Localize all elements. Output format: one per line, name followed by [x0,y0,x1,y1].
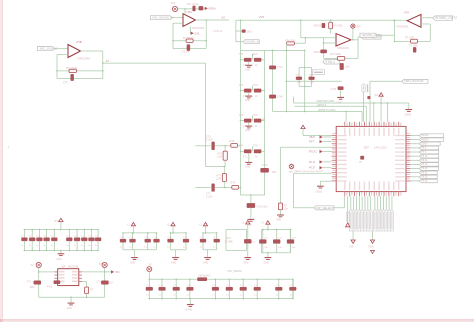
wire left vert [393,21,395,42]
wire feedback bottom [324,57,358,59]
svg-text:2: 2 [8,146,10,150]
capacitor C41 100n [269,66,275,69]
bank4 ground [205,232,207,234]
net 2V5 rail wire [236,19,409,21]
svg-text:R?2: R?2 [254,146,259,148]
capacitor Cb1_5 [54,229,56,231]
ground top right [405,109,412,111]
svg-text:MOSI0: MOSI0 [421,135,429,137]
svg-text:C?34 1u: C?34 1u [214,31,223,33]
ground chain [189,299,191,305]
thermal pad symbol [361,156,364,159]
svg-text:RST: RST [309,141,314,144]
svg-text:5V: 5V [149,263,152,266]
ground row 2 [248,93,250,97]
power flag down 2 [370,240,374,243]
svg-text:P0.27: P0.27 [309,167,316,170]
wire U7 out [82,271,111,273]
bottom bus U7 [39,296,105,298]
wire bottom col 4 [358,196,360,209]
svg-text:GND: GND [245,69,250,71]
svg-text:3V3: 3V3 [115,271,120,274]
wire bottom col 10 [377,196,379,209]
wire bottom col 6 [364,196,366,209]
bank3 bottom bus [171,249,187,251]
wire bottom col 14 [388,196,390,209]
capacitor C25 [54,281,60,284]
svg-text:FB? BLM21: FB? BLM21 [199,275,212,277]
RC row 1 wires [240,59,242,61]
svg-text:C?2: C?2 [309,75,314,77]
IC U7 MIC5205 body [58,269,79,286]
net label MIC_IN [150,16,172,20]
svg-text:U?A: U?A [404,11,410,15]
bank2 capacitor 2 [132,232,134,234]
svg-text:MIC_SOUND_IN: MIC_SOUND_IN [153,16,174,20]
net label P0.8 [419,146,439,150]
svg-text:P0.22: P0.22 [421,172,428,174]
svg-text:C? 100n: C? 100n [409,44,419,47]
svg-text:C?16 100n: C?16 100n [257,206,269,208]
ground row 4 [248,153,250,162]
svg-text:SOUND_OUT2: SOUND_OUT2 [435,16,457,20]
wire feedback left [172,23,174,48]
chain capacitor 3 [175,279,177,281]
IC right pins [406,135,411,137]
bank1 top bus [24,229,98,231]
vertical net label [362,84,365,92]
svg-text:1uF: 1uF [292,247,296,249]
wire to U5B +in [54,48,68,50]
test point circle [289,164,294,169]
chain capacitor 4 [189,279,191,281]
wire R mid [286,42,305,44]
svg-text:GND2: GND2 [316,190,323,193]
svg-text:UART0-RX-GPIO: UART0-RX-GPIO [316,100,334,103]
wire rows top bus [241,49,305,51]
RC row 2 wires [240,90,242,92]
wire R to gnd [280,210,282,215]
IC U1 LPC2103 body [336,126,406,191]
svg-text:GND: GND [337,102,342,104]
net label SCK0 [419,142,440,146]
chain capacitor 7 [242,279,244,281]
wire output and circle [351,39,358,41]
svg-text:VDD33: VDD33 [313,24,321,27]
net label to -in [360,33,378,37]
vertical net labels bottom [349,210,352,232]
svg-text:OPA2340: OPA2340 [192,26,205,30]
wire x387 to pin [386,103,388,122]
net label SOUND_IN [37,47,54,51]
bank4 capacitor 2 [216,232,218,234]
net label P0.9 [419,150,439,154]
resistor R32 100k [329,22,333,29]
bank2 capacitor 4 [156,232,158,234]
svg-text:C?3: C?3 [97,282,102,284]
wire to U7 in [39,271,55,273]
wire Hc y111.5 [273,111,363,113]
svg-text:OPA2340: OPA2340 [78,56,91,60]
wire branch2 left [195,187,210,189]
capacitor Cb1_8 [84,229,86,231]
svg-text:C?4: C?4 [239,85,244,87]
ground row 1 [248,62,250,66]
wire U7 bypass down [82,281,87,283]
svg-text:TP: TP [359,162,362,164]
svg-text:C?6: C?6 [63,82,68,85]
U7 right pin 1 [79,271,82,273]
svg-text:P0.9: P0.9 [421,152,426,154]
svg-text:C?4: C?4 [239,54,244,56]
svg-text:R?2: R?2 [254,54,259,56]
svg-text:2V5: 2V5 [195,31,200,35]
svg-text:RTCX1: RTCX1 [309,151,317,154]
svg-text:3V3: 3V3 [357,27,362,29]
svg-text:100n: 100n [247,32,253,34]
resistor R pulldown 10k [278,203,282,210]
svg-text:R?8: R?8 [230,140,235,143]
svg-text:P0.23: P0.23 [421,177,428,179]
via blob [368,96,371,99]
wire bottom col 2 [353,196,355,209]
ground bank5 [244,257,251,259]
svg-text:TP?: TP? [289,172,294,174]
svg-text:Q?2: Q?2 [227,238,232,240]
wire crystal feed [300,20,302,38]
vcc arrow above left pins [301,125,305,128]
wire feedback right vert [429,24,431,41]
chain capacitor 6 [229,279,231,281]
svg-text:R?1 C?34: R?1 C?34 [187,3,198,6]
wire right pin 3 [411,143,420,145]
wire C16 to gnd [250,208,252,219]
vcc arrow below [346,223,350,227]
wire Ha y103 long [293,102,408,104]
wire bottom col 9 [374,196,376,209]
svg-text:IC?: IC? [364,146,369,150]
svg-text:U5A: U5A [187,10,193,14]
chain capacitor 8 [256,279,258,281]
svg-text:VBAT_BACKUP: VBAT_BACKUP [404,79,424,83]
svg-text:P0.13: P0.13 [421,168,428,170]
svg-text:LPC2103: LPC2103 [374,146,387,150]
capacitor Cb1_3 [39,229,41,231]
wire RTCK net [281,146,332,148]
svg-text:P0.12: P0.12 [421,164,428,166]
wire to RC rows [238,145,241,147]
net label P0.13 [419,167,439,171]
wire U5B -in [57,54,68,56]
wire bottom col 3 [355,196,357,209]
IC left pins [332,135,337,137]
wire bottom col 1 [350,196,352,209]
wire right pin 6 [411,155,420,157]
wire x363 down [363,92,365,122]
wire mid node [206,165,225,167]
svg-text:GND: GND [245,167,250,169]
svg-text:100n: 100n [272,172,278,174]
net label ISP_SEL [314,206,334,210]
wire right rail [104,268,106,298]
wire bus y195 [241,194,265,196]
bank1 bottom bus [24,249,98,251]
svg-text:GND: GND [245,130,250,132]
wire bottom col 15 [391,196,393,209]
wire right pin 8 [411,163,420,165]
wire branch2 to rows [239,187,241,189]
svg-text:C?5 1uF: C?5 1uF [181,52,190,54]
bank4 bottom bus [203,249,217,251]
wire TXD bundle [293,172,331,174]
U7 right pin 4 [79,281,82,283]
wire right pin 7 [411,159,420,161]
ground C29 [337,96,344,98]
op-amp U5A [183,14,196,27]
capacitor Cb1_9 [91,229,93,231]
svg-text:SCK0: SCK0 [421,143,428,145]
wire H1 y81 [286,80,342,82]
RC row 3 wires [240,120,242,122]
wire RTCK down [280,147,282,203]
svg-text:R? 100k: R? 100k [334,24,344,27]
ground row 3 [248,123,250,127]
chain bottom bus [149,298,293,300]
ground bank1 [60,250,62,253]
capacitor C34 stub [236,30,242,32]
capacitor Cb1_1 [24,229,26,231]
U7 left pin 4 [55,281,58,283]
wire long down 1 [352,231,354,240]
resistor R bypass [85,287,89,294]
svg-text:MIC5205: MIC5205 [68,266,79,269]
wire crystal top [304,50,306,111]
chain capacitor 1 [149,279,151,281]
net label P0.22 [419,171,437,175]
capacitor C16 [250,195,252,203]
net arrow 2V5 at -in [191,32,194,35]
svg-text:220n: 220n [30,287,36,289]
bank2 ground [133,232,135,234]
svg-text:C?4: C?4 [239,146,244,148]
wire U5A vcc stub [184,9,186,14]
IC bottom pins [344,192,346,197]
bank6 top bus [261,229,290,231]
svg-text:P0.11: P0.11 [421,160,428,162]
svg-text:HS?_AUDIO: HS?_AUDIO [228,270,242,273]
bank6 left wire [260,230,262,253]
svg-text:ISP_SELECT: ISP_SELECT [316,206,334,210]
wire bottom col 7 [367,196,369,209]
wire rail left drop [235,20,237,42]
wire long vert x370 [369,81,371,121]
IC right pin names [395,135,405,136]
wire RC tap [304,38,306,44]
wire left rail [38,268,40,298]
wire Hb y106.3 [295,105,367,107]
wire gnd drop right [408,103,410,109]
wire right pin 10 [411,172,420,174]
crystal circuit box [299,66,311,68]
svg-text:GND: GND [203,263,208,265]
wire right pin 2 [411,139,420,141]
svg-text:P0.25: P0.25 [421,181,428,183]
svg-text:SOUND_IN: SOUND_IN [245,40,259,44]
svg-text:GND: GND [130,263,135,265]
capacitor Cb1_7 [76,229,78,231]
IC top pin names [344,128,345,137]
wire right pin 1 [411,135,420,137]
chain capacitor 2 [161,279,163,281]
svg-text:R?2: R?2 [254,115,259,117]
bank6 bottom bus [261,252,290,254]
net label P0.25 [419,179,437,183]
wire chain feed [148,272,150,280]
svg-text:1.2M: 1.2M [217,156,222,159]
svg-text:MISO0: MISO0 [421,139,429,141]
svg-text:A1: A1 [106,59,110,63]
wire feedback bottom [57,78,103,80]
svg-text:GND: GND [57,259,62,261]
svg-text:4.7u: 4.7u [243,157,248,159]
wire bundle down [292,173,294,208]
svg-text:GND: GND [247,224,252,226]
op-amp U6A [407,14,421,27]
bank3 capacitor 2 [185,232,187,234]
net label P0.10 [419,154,439,158]
U7 left pin 1 [55,271,58,273]
svg-text:R?2: R?2 [254,85,259,87]
bank6 capacitor 2 [276,229,278,231]
svg-text:1.2M: 1.2M [216,178,221,181]
wire right pin 12 [411,180,420,182]
crystal Q1 body [312,70,324,75]
capacitor Cb1_10 [97,229,99,231]
ground RTCK [277,214,284,216]
bank3 capacitor 1 [170,232,172,234]
svg-text:2.2uF: 2.2uF [206,139,213,142]
capacitor C40 100n [269,95,275,98]
svg-text:VBAT: VBAT [309,136,316,139]
wire x366 to pin [365,106,367,121]
svg-text:UART0-TXD-ISP BSL ENTRY: UART0-TXD-ISP BSL ENTRY [294,170,324,173]
bank2 top bus [123,232,157,234]
wire feedback bottom [394,40,430,42]
wire output vertical [205,20,207,49]
bank2 capacitor 3 [147,232,149,234]
net label output [358,36,361,38]
net label VBAT top right [370,80,402,82]
wire x362 to pin [361,112,363,122]
svg-text:C?3: C?3 [296,75,301,77]
U7 right pin 2 [79,274,82,276]
wire mid vertical 2 [285,50,287,111]
wire to gnd bank5 [247,243,249,257]
wire x373 to pin [373,103,375,122]
capacitor CF1 [71,74,74,80]
RC row 4 wires [240,151,242,153]
net label XTAL [323,59,340,64]
net label A2 mid [236,41,243,43]
bank6 capacitor 3 [290,229,292,231]
svg-text:R?6: R?6 [231,182,236,185]
bank6 ground [267,253,269,257]
wire C29 to gnd [340,90,342,97]
bank2 capacitor 1 [122,232,124,234]
wire down to bias network [205,63,207,166]
capacitor Cb1_6 [69,229,71,231]
U7 right pin 3 [79,277,82,279]
wire bottom col 12 [382,196,384,209]
wire rows right bus [264,50,266,195]
wire to U5A +in [172,17,183,19]
capacitor Cb1_2 [31,229,33,231]
wire bottom col 8 [370,196,372,209]
svg-text:AGND: AGND [186,309,193,312]
wire right pin 11 [411,176,420,178]
wire output right [421,17,433,19]
net label MISO0 [419,138,444,142]
svg-text:OPA2340: OPA2340 [396,24,408,28]
thin label near IC bottom left [346,212,349,222]
net label P0.11 [419,159,439,163]
wire x381 to pin [380,103,382,122]
svg-text:32.768k: 32.768k [225,241,234,243]
wire branch2 right [215,187,232,189]
chain capacitor 10 [292,279,294,281]
IC left pin names [337,135,347,136]
svg-text:C?40: C?40 [277,96,283,99]
page border bottom [0,319,474,322]
bank3 top bus [171,232,187,234]
power circle mid [351,24,355,28]
wire branch1 right [215,145,231,147]
svg-text:GND: GND [276,220,281,222]
wire long down 2 [372,231,374,240]
svg-text:470p: 470p [47,287,53,289]
svg-text:2.2uF: 2.2uF [206,196,213,199]
power flag down 1 [351,240,355,243]
svg-text:3V3: 3V3 [171,2,176,5]
wire mid vertical 2b [285,43,287,50]
net label P0.12 [419,163,439,167]
capacitor Cb1_4 [46,229,48,231]
bank3 ground [172,232,174,234]
wire right pin 5 [411,151,420,153]
ground C16 [248,218,255,220]
capacitor Cb5 [244,239,251,243]
bank6 right wire [289,230,291,253]
wire to ISP label [293,207,344,209]
svg-text:C?4: C?4 [27,282,32,284]
bank2 bottom bus [123,249,157,251]
net arrow VDDA [205,7,208,10]
bank6 capacitor 1 [262,229,264,231]
svg-text:UART0-TX-GPIO: UART0-TX-GPIO [318,109,336,112]
net label P0.23 [419,175,437,179]
svg-text:2V5: 2V5 [259,15,264,19]
svg-text:C?29: C?29 [331,89,337,91]
capacitor C7 series [212,184,215,192]
chain capacitor 9 [278,279,280,281]
wire bottom col 5 [361,196,363,209]
net arrow VCC out [111,270,114,273]
wire gnd stub left [320,180,331,182]
svg-text:C?4: C?4 [239,115,244,117]
page border left [0,0,3,319]
wire feedback mid [57,70,103,72]
svg-text:GND: GND [264,263,269,265]
